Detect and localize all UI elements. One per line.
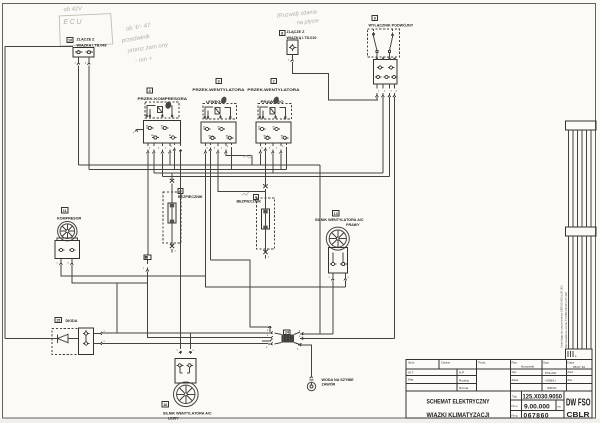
svg-text:WYLĄCZNIK PODWÓJNY: WYLĄCZNIK PODWÓJNY <box>369 22 414 27</box>
fuse F5 dashed box <box>163 192 181 243</box>
wire junction to switch pin4 <box>304 338 395 340</box>
junction X24 block <box>275 332 301 345</box>
fuse F6 label box <box>254 194 259 199</box>
relay K4 pin squares <box>146 115 174 117</box>
svg-text:3: 3 <box>218 80 220 84</box>
margin rotated text <box>560 285 568 348</box>
svg-text:Wprowadzono wzrok.71.CBR.08.02: Wprowadzono wzrok.71.CBR.08.02m.07.302 <box>564 292 568 348</box>
bus wire y169 <box>89 169 287 171</box>
svg-text:Ilość: Ilość <box>408 361 415 365</box>
svg-text:ob 42V: ob 42V <box>63 6 83 13</box>
svg-text:NOBILI: NOBILI <box>546 378 556 382</box>
svg-text:13: 13 <box>334 212 338 216</box>
wire X10 pin2 down <box>88 57 90 170</box>
pencil note "ob 42V" <box>63 6 83 13</box>
svg-text:Mat.: Mat. <box>408 378 414 382</box>
title block inner boxes rows2-4 <box>457 369 476 391</box>
svg-text:Typ: Typ <box>512 394 517 398</box>
svg-text:WROC: WROC <box>547 386 558 390</box>
connector X8 label box <box>280 31 285 36</box>
svg-text:125.X030.9050: 125.X030.9050 <box>523 394 563 401</box>
pencil squiggle on bus <box>244 156 253 158</box>
relay K4 pin terminals <box>146 143 175 153</box>
svg-text:ZLĄCZE Z: ZLĄCZE Z <box>77 38 96 42</box>
wire from X10 left to left rail <box>5 45 73 47</box>
fuse F6 top lead <box>263 165 267 198</box>
fuse F5 top lead <box>170 173 174 192</box>
svg-text:CBLR: CBLR <box>567 412 590 419</box>
fuse F6 bottom terminal <box>263 229 267 259</box>
wire compressor pin2 <box>72 265 148 283</box>
fuse F5 label box <box>178 189 183 194</box>
relay K3 pin squares <box>204 116 232 118</box>
wire motor M13 pin2 down join relay wire <box>345 281 347 288</box>
binding comb strip middle cap <box>566 227 596 236</box>
wire switch pin4 down to junction <box>394 97 396 339</box>
washer valve bulb <box>307 382 315 390</box>
svg-text:9: 9 <box>374 17 376 21</box>
svg-text:WIĄZKĄ l.TD.010: WIĄZKĄ l.TD.010 <box>287 36 317 40</box>
motor M13 body <box>328 248 347 274</box>
svg-text:N.P.: N.P. <box>459 371 465 375</box>
svg-text:Ciężar: Ciężar <box>441 361 450 365</box>
fuse F6 dashed box <box>257 198 275 249</box>
relay K4 socket body <box>144 121 181 144</box>
switch S9 connector body <box>374 58 398 84</box>
wire relay K4 pin1 drop <box>162 153 164 176</box>
switch S9 contacts <box>373 29 394 58</box>
wire switch pin1 down <box>376 97 378 100</box>
fuse F5 bottom terminal <box>170 223 174 253</box>
svg-text:WODA NA SZYBIE: WODA NA SZYBIE <box>322 378 355 382</box>
svg-text:DW FSO: DW FSO <box>566 398 591 409</box>
inline connector X12 on wire <box>143 153 151 271</box>
motor M13 fan <box>326 227 349 250</box>
motor M16 fan <box>174 382 199 407</box>
svg-text:SILNIK WENTYLATORA A/C: SILNIK WENTYLATORA A/C <box>315 218 364 222</box>
relay K4 coil and internal wiring <box>147 106 172 116</box>
switch S9 label box <box>372 15 378 20</box>
svg-text:16: 16 <box>163 403 167 407</box>
svg-text:WIĄZKĄ l.TB.048: WIĄZKĄ l.TB.048 <box>77 44 107 48</box>
relay K2 label box <box>271 78 276 83</box>
wire X10 pin1 down <box>78 57 80 165</box>
svg-text:067860: 067860 <box>524 412 550 419</box>
wire compressor pin1 <box>61 265 206 276</box>
wire relay K4 pin2 drop <box>174 151 176 170</box>
junction top terminal <box>268 326 271 328</box>
wire diode bottom to junction <box>102 343 268 345</box>
compressor M11 body <box>55 238 80 259</box>
svg-text:2: 2 <box>273 80 275 84</box>
diode D15 connector body <box>79 328 94 355</box>
svg-text:Sap.: Sap. <box>543 360 550 364</box>
relay K3 pin terminals <box>204 143 232 153</box>
svg-text:PRZEK.KOMPRESORA: PRZEK.KOMPRESORA <box>138 97 188 101</box>
svg-text:8: 8 <box>281 32 283 36</box>
svg-text:DIODA: DIODA <box>66 319 78 323</box>
svg-text:Podz.: Podz. <box>478 361 486 365</box>
svg-text:Nosowski: Nosowski <box>521 365 535 369</box>
compressor M11 label box <box>62 208 68 213</box>
svg-text:Zatw.: Zatw. <box>512 378 520 382</box>
diode D15 label box <box>55 317 61 322</box>
svg-text:10: 10 <box>68 39 72 43</box>
washer valve terminal <box>309 374 313 380</box>
svg-text:98.07.10: 98.07.10 <box>573 365 585 369</box>
svg-text:Data: Data <box>567 360 574 364</box>
wire relay K3 path to junction top <box>211 260 271 332</box>
switch S9 pin terminals <box>375 84 395 97</box>
binding comb vertical lines <box>569 130 592 349</box>
fuse F5 element <box>168 192 176 223</box>
diode D15 dashed box <box>52 329 79 355</box>
relay K2 pin terminals <box>259 143 287 153</box>
bus bridge y155 <box>226 153 252 165</box>
connector X8 terminal <box>291 58 294 62</box>
junction X24 label box <box>284 330 290 335</box>
svg-text:SILNIK WENTYLATORA A/C: SILNIK WENTYLATORA A/C <box>163 412 212 416</box>
bottom cap tick marks <box>568 351 573 357</box>
svg-text:ZLĄCZE Z: ZLĄCZE Z <box>287 30 306 34</box>
svg-text:KOMPRESOR: KOMPRESOR <box>57 216 82 220</box>
title block outer frame <box>406 360 592 419</box>
pencil note top middle <box>277 9 319 28</box>
svg-text:BEZPIECZNIK: BEZPIECZNIK <box>178 195 203 199</box>
binding comb strip top cap <box>566 121 596 130</box>
relay K3 pencil blob <box>220 96 227 104</box>
pencil squiggle near fuse F6 <box>242 192 249 196</box>
relay K3 socket body <box>201 122 236 143</box>
svg-text:Zal.: Zal. <box>567 378 572 382</box>
diode D15 symbol <box>54 334 79 343</box>
wire X8 down and right to switch <box>292 55 378 101</box>
relay K4 pencil blob <box>165 101 173 110</box>
compressor M11 clutch wheel <box>58 222 77 241</box>
junction X24 left terminals <box>262 331 273 345</box>
fuse F6 element <box>261 198 269 229</box>
svg-text:PRZEK.WENTYLATORA: PRZEK.WENTYLATORA <box>192 88 244 92</box>
connector X10 label box <box>67 38 73 43</box>
wire relay K2 pin drops <box>261 147 287 173</box>
svg-text:9.00.000: 9.00.000 <box>524 404 550 411</box>
connector X10 pin terminals <box>77 61 90 65</box>
wire rail to diode <box>5 338 54 340</box>
wire junction down to washer valve <box>302 345 312 374</box>
svg-text:ECU: ECU <box>64 19 84 26</box>
relay K3 coil and internal wiring <box>205 107 231 117</box>
svg-text:Norma: Norma <box>459 386 469 390</box>
relay K2 socket body <box>256 122 291 143</box>
relay K4 label box <box>147 88 152 93</box>
connector X8 body <box>287 40 298 55</box>
svg-text:W.T.: W.T. <box>408 371 414 375</box>
relay K3 dashed box <box>203 104 237 120</box>
relay K4 left stub terminal <box>135 130 144 132</box>
svg-text:Spr.: Spr. <box>512 370 518 374</box>
svg-text:Zad.: Zad. <box>567 370 573 374</box>
wire relay K4 pin3 drop <box>169 153 171 165</box>
wire X12 down to junction <box>148 272 269 338</box>
title block grid lines <box>406 360 592 419</box>
relay K2 dashed box <box>258 104 292 120</box>
relay K3 label box <box>216 78 221 83</box>
svg-text:WIĄZKI KLIMATYZACJI: WIĄZKI KLIMATYZACJI <box>427 412 490 419</box>
wire relay K3 pin drops <box>206 147 346 287</box>
pencil box around ECU <box>59 14 113 46</box>
left rail wire <box>4 46 6 338</box>
wire motor M13 pin1 down to junction wire <box>332 281 334 334</box>
svg-text:Rys.: Rys. <box>512 360 518 364</box>
wire junction to motor M13 <box>304 333 333 335</box>
junction X24 right terminals <box>298 332 304 346</box>
wire compressor drop to junction wire <box>116 283 118 333</box>
wire bus drop to junction feed <box>319 165 321 334</box>
relay K2 pencil blob <box>273 96 280 104</box>
motor M16 label box <box>162 402 169 407</box>
svg-text:Rodzaj: Rodzaj <box>459 378 469 382</box>
relay K2 coil and internal wiring <box>260 107 286 117</box>
svg-text:11: 11 <box>63 209 67 213</box>
diode D15 right terminals <box>94 332 103 345</box>
svg-text:LEWY: LEWY <box>168 417 179 421</box>
bus wire y173 <box>154 172 383 174</box>
svg-text:PRAWY: PRAWY <box>346 223 360 227</box>
pencil note right of ECU <box>119 20 172 66</box>
motor M16 body <box>175 359 196 384</box>
motor M13 terminals <box>331 273 347 281</box>
compressor M11 terminals <box>59 259 73 266</box>
svg-text:15: 15 <box>56 319 60 323</box>
wire switch pin2 down to bus <box>382 97 384 173</box>
motor M16 top terminals <box>179 143 192 354</box>
svg-text:BEZPIECZNIK: BEZPIECZNIK <box>237 199 262 203</box>
bus wire y176 <box>163 176 390 178</box>
svg-text:POLASf: POLASf <box>545 371 556 375</box>
svg-text:PRZEK.WENTYLATORA: PRZEK.WENTYLATORA <box>247 88 299 92</box>
svg-text:Nr g.: Nr g. <box>512 414 519 418</box>
relay K4 dashed box <box>145 102 179 118</box>
connector X10 body <box>73 48 94 58</box>
svg-text:Nr u.: Nr u. <box>512 404 519 408</box>
binding comb strip bottom cap <box>566 349 592 360</box>
wire relay K4 pin5 drop <box>153 153 155 173</box>
svg-text:ZAWÓR: ZAWÓR <box>322 381 336 386</box>
switch S9 dashed box <box>368 29 400 57</box>
svg-text:SCHEMAT ELEKTRYCZNY: SCHEMAT ELEKTRYCZNY <box>427 399 490 406</box>
relay K2 pin squares <box>259 116 287 118</box>
bus wire y165 <box>79 164 321 166</box>
wire switch pin3 down to bus <box>389 97 391 177</box>
wire diode top to junction <box>102 332 268 334</box>
motor M13 label box <box>333 211 339 216</box>
